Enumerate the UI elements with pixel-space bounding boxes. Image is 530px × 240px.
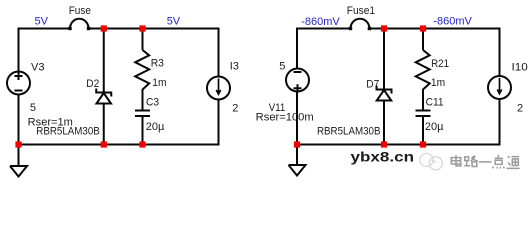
wire V11 bottom to ground rail: [296, 92, 298, 145]
wire C11 bottom: [422, 117, 424, 145]
node junction top D7: [381, 25, 387, 31]
diode D7 (zener): [377, 86, 392, 94]
char dian4 (electric): [451, 155, 461, 166]
current source I3: [207, 77, 230, 100]
svg-text:Rser=100m: Rser=100m: [256, 111, 314, 123]
svg-text:D7: D7: [366, 79, 379, 91]
wire top-left: V3 top up and across to fuse: [19, 29, 71, 73]
svg-text:R3: R3: [151, 57, 164, 69]
capacitor C11: [416, 111, 431, 117]
capacitor C3: [135, 111, 150, 117]
node junction bottom D7: [381, 141, 387, 147]
node junction bottom C3: [139, 141, 145, 147]
svg-text:R21: R21: [431, 58, 449, 70]
wire D7 bottom: [383, 101, 385, 145]
svg-text:Fuse1: Fuse1: [347, 5, 375, 17]
svg-text:D2: D2: [86, 78, 99, 90]
wire top: fuse1 to right corner and down to I10: [369, 29, 499, 77]
svg-text:V3: V3: [31, 61, 44, 73]
wire bottom rail left circuit and up to I3: [19, 100, 219, 145]
svg-text:1m: 1m: [152, 77, 166, 89]
svg-text:ybx8.cn: ybx8.cn: [351, 150, 415, 165]
voltage source V11 (flipped): [286, 69, 309, 92]
node junction bottom D2: [101, 141, 107, 147]
fuse Fuse1 symbol: [351, 19, 370, 29]
wire C3 bottom: [142, 117, 144, 145]
svg-text:5V: 5V: [35, 16, 49, 28]
svg-text:Fuse: Fuse: [69, 5, 91, 17]
ground (right circuit): [289, 145, 306, 176]
svg-text:I10: I10: [512, 62, 528, 74]
node junction top D2: [101, 25, 107, 31]
voltage source V3: [7, 72, 30, 95]
wire R21 top: [422, 29, 424, 51]
watermark logo circles: [420, 153, 443, 170]
wire D7 top: [383, 29, 385, 89]
current source I10: [488, 76, 511, 99]
wire V3 bottom to ground rail: [18, 95, 20, 145]
diode D2 (zener): [96, 89, 111, 97]
node junction bottom ground: [15, 141, 21, 147]
resistor R3: [135, 50, 149, 90]
ground (left circuit): [10, 145, 27, 177]
char dian3 (point): [493, 155, 505, 169]
svg-text:-860mV: -860mV: [301, 16, 340, 28]
svg-text:RBR5LAM30B: RBR5LAM30B: [36, 125, 100, 137]
node junction bottom ground (right): [294, 141, 300, 147]
resistor R21: [416, 50, 430, 90]
node junction top R3: [139, 25, 145, 31]
svg-text:20µ: 20µ: [146, 121, 165, 133]
svg-text:RBR5LAM30B: RBR5LAM30B: [317, 126, 381, 138]
wire D2 bottom: [103, 104, 105, 145]
wire R21 to C11: [422, 89, 424, 110]
svg-text:-860mV: -860mV: [433, 16, 472, 28]
char lu4 (road): [464, 156, 477, 167]
node junction top R21: [420, 25, 426, 31]
svg-text:2: 2: [232, 102, 238, 114]
wire bottom rail right circuit and up to I10: [297, 99, 500, 145]
svg-text:1m: 1m: [431, 77, 445, 89]
svg-text:20µ: 20µ: [425, 121, 444, 133]
svg-text:5: 5: [279, 61, 285, 73]
char tong1 (through): [507, 156, 520, 168]
svg-text:C11: C11: [426, 97, 444, 109]
node junction bottom C11: [420, 141, 426, 147]
svg-text:2: 2: [517, 102, 523, 114]
wire top-left: V11 top up and across to fuse1: [297, 29, 351, 70]
wire R3 top: [142, 29, 144, 51]
fuse F1 symbol: [70, 19, 89, 29]
svg-text:5: 5: [30, 102, 36, 114]
wire top: fuse to right corner and down to I3: [89, 29, 219, 78]
watermark text 电路一点通 (vector strokes): [451, 155, 519, 169]
svg-text:C3: C3: [146, 97, 159, 109]
char yi1 (one): [479, 161, 492, 163]
wire D2 top: [103, 29, 105, 92]
wire R3 to C3: [142, 89, 144, 110]
svg-text:I3: I3: [230, 61, 239, 73]
svg-text:5V: 5V: [167, 16, 181, 28]
